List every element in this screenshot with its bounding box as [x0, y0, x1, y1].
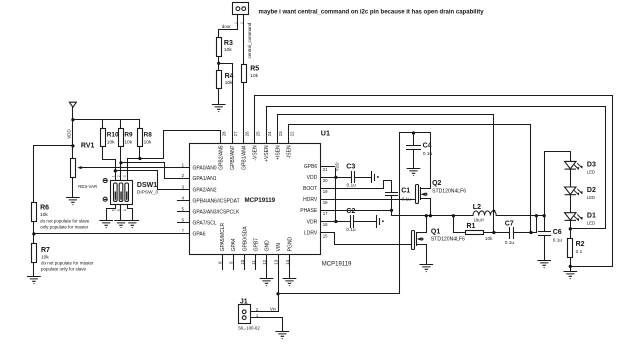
svg-text:GPA1/AN1: GPA1/AN1 [193, 176, 217, 182]
svg-text:Vin: Vin [270, 307, 277, 312]
junction [425, 214, 428, 217]
svg-text:R9: R9 [124, 132, 133, 139]
junction [276, 292, 279, 295]
U1 left pin numbers [182, 162, 185, 233]
wire J1 pin2 to VIN rail [251, 294, 279, 312]
wire R10 to DSW1 switch1 [103, 147, 116, 181]
ground below J1 [276, 332, 289, 340]
svg-text:R5: R5 [250, 66, 259, 73]
svg-text:Q1: Q1 [431, 228, 440, 235]
wire output to LED chain top [545, 152, 571, 216]
svg-text:R7: R7 [41, 247, 50, 254]
svg-text:R10: R10 [107, 132, 119, 139]
svg-text:MCP19119: MCP19119 [322, 261, 352, 267]
junction VDD rail [71, 118, 74, 121]
LED D1 [565, 213, 576, 239]
DSW1 polarity circles [103, 179, 107, 183]
resistor R10 [101, 129, 106, 147]
svg-text:R4: R4 [225, 73, 234, 80]
svg-text:R8: R8 [144, 132, 153, 139]
connector J1 SIL-100-02 [239, 305, 251, 324]
svg-text:do not populate for slave: do not populate for slave [40, 218, 90, 223]
resistor R5 [242, 65, 247, 83]
inductor L2 18uH [473, 211, 496, 216]
junction [429, 214, 432, 217]
svg-text:GPA2/AN2: GPA2/AN2 [193, 187, 217, 193]
svg-text:15: 15 [323, 233, 328, 238]
svg-text:C7: C7 [505, 220, 514, 227]
U1 top pin names (rotated) [219, 145, 293, 170]
output line after L2 [497, 215, 545, 217]
svg-text:L2: L2 [473, 204, 481, 211]
wire VDD rail to resistor bank [73, 120, 140, 129]
svg-text:VIN: VIN [276, 243, 282, 252]
wire VIN rail from pin13 [278, 255, 280, 294]
svg-text:19: 19 [323, 189, 328, 194]
junction C1/PHASE [390, 209, 393, 212]
svg-text:-ISEN: -ISEN [287, 145, 293, 159]
ground below RV1 [67, 198, 80, 206]
svg-text:12: 12 [262, 259, 267, 264]
svg-text:do not populate for master: do not populate for master [41, 261, 94, 266]
svg-text:R1: R1 [467, 223, 476, 230]
svg-text:VDD: VDD [67, 129, 72, 139]
wire R9 to DSW1 switch2, junction [120, 147, 122, 181]
wire RV1 bottom to ground [72, 178, 74, 198]
LED D3 [565, 161, 576, 186]
U1 bottom pin numbers (rotated) [217, 259, 290, 264]
wire C7 right to -ISEN junction [514, 216, 537, 233]
svg-text:16: 16 [323, 222, 328, 227]
svg-text:central_command: central_command [247, 22, 252, 58]
svg-text:GPA5/MCLR: GPA5/MCLR [220, 222, 226, 251]
wire door: P1 pin1 to R3 [219, 15, 238, 38]
svg-text:3: 3 [123, 175, 127, 177]
ground below R7 [28, 277, 41, 285]
svg-text:Q2: Q2 [432, 180, 441, 187]
ground below R2 [564, 272, 577, 280]
junction [535, 214, 538, 217]
svg-text:GND: GND [264, 240, 270, 252]
wire junction to U1 pin 7 [34, 233, 190, 235]
svg-text:RV1: RV1 [81, 143, 95, 150]
potentiometer RV1 [71, 159, 76, 178]
svg-text:LED: LED [587, 169, 595, 174]
wire U1 pin3 to switch1 junction [116, 171, 190, 190]
svg-text:+ISEN: +ISEN [275, 145, 281, 160]
U1 top pin numbers (rotated) [222, 131, 295, 136]
svg-text:GPB0/SDA: GPB0/SDA [242, 226, 248, 252]
junction [452, 214, 455, 217]
junction pin3 net on switch1 wire [114, 169, 117, 172]
svg-text:GPB1/AN4: GPB1/AN4 [242, 145, 248, 170]
wire LDRV pin15 to Q1 gate [321, 233, 412, 245]
resistor R6 [32, 203, 37, 222]
svg-text:VDR: VDR [307, 219, 318, 225]
capacitor C4 [413, 133, 415, 169]
wire U1 pin28 to R8 and DSW1 switch3 [128, 131, 221, 181]
svg-text:13: 13 [273, 259, 278, 264]
svg-text:GPB6: GPB6 [304, 164, 318, 170]
junction [119, 161, 122, 164]
transistor Q2 STD120N4LF6 [416, 185, 419, 204]
svg-text:25: 25 [256, 131, 261, 136]
U1 pin 12 GND stub and ground [266, 255, 268, 279]
resistor R1 [466, 231, 484, 235]
svg-text:11: 11 [251, 260, 256, 265]
junction L2 right crossing [493, 210, 496, 213]
svg-text:GPB4/AN6/ICSPDAT: GPB4/AN6/ICSPDAT [193, 198, 240, 204]
U1 left pin stubs 1-7 [178, 201, 190, 223]
svg-text:BOOT: BOOT [303, 186, 317, 192]
connector P1 (door / central_command) [233, 3, 249, 15]
wire R8 bottom [139, 147, 141, 159]
svg-text:MCP19119: MCP19119 [245, 197, 276, 204]
ground below C6 [538, 261, 551, 269]
svg-text:RES-VAR: RES-VAR [78, 184, 97, 189]
svg-text:populate only for slave: populate only for slave [41, 267, 87, 272]
junction [569, 265, 572, 268]
svg-text:10k: 10k [224, 47, 232, 53]
svg-text:10k: 10k [107, 139, 115, 145]
svg-text:6: 6 [111, 209, 115, 211]
wire R1 to C7 [484, 232, 509, 234]
svg-text:0.1u: 0.1u [423, 151, 433, 157]
wire central_command: P1 pin2 to R5 [243, 15, 245, 65]
junction [138, 157, 141, 160]
svg-text:10k: 10k [144, 139, 152, 145]
IC U1 MCP19119 body [190, 144, 321, 255]
wire R9 junction to U1 pin 2 [121, 163, 190, 179]
svg-text:D3: D3 [587, 161, 596, 168]
junction VDD vertical top [334, 176, 337, 179]
junction [32, 232, 35, 235]
wire R2 bottom junction to ground [570, 258, 572, 272]
svg-text:PHASE: PHASE [300, 208, 318, 214]
wire VDR row pin16 through C2 [321, 221, 377, 223]
svg-text:U1: U1 [321, 128, 330, 137]
svg-text:GPA0/AN0: GPA0/AN0 [193, 165, 217, 171]
wire VDD row pin20 through C3 [321, 177, 372, 179]
svg-text:17: 17 [323, 211, 328, 216]
DSW1 bottom wires to grounds [107, 205, 133, 221]
svg-text:2: 2 [117, 175, 121, 177]
svg-text:D1: D1 [587, 213, 596, 220]
wire J1 pin1 to ground [251, 318, 283, 332]
junction VDD to R6 branch [71, 144, 74, 147]
svg-text:GPA6: GPA6 [193, 232, 206, 238]
U1 right pin names [300, 164, 318, 236]
svg-text:VDD: VDD [307, 175, 318, 181]
svg-text:HDRV: HDRV [303, 197, 318, 203]
capacitor C6 [544, 216, 546, 261]
svg-text:10k: 10k [124, 139, 132, 145]
wire VDD branch to R6 [34, 146, 73, 203]
capacitor C1 [386, 193, 398, 196]
wire R7 bottom to ground [33, 263, 35, 277]
RV1 wiper arrow [81, 167, 85, 169]
svg-text:0.1u: 0.1u [347, 183, 357, 189]
svg-text:21: 21 [323, 167, 328, 172]
resistor R8 [138, 129, 143, 147]
svg-text:C3: C3 [346, 164, 355, 171]
U1 bottom pin stubs 8-11 (no connect) [223, 255, 256, 270]
junction D1/R2/+VSEN [569, 227, 572, 230]
junction [334, 220, 337, 223]
junction [217, 62, 220, 65]
svg-text:1: 1 [111, 175, 115, 177]
wire R3 bottom to R4, junction [218, 57, 220, 71]
VDD vertical tie pin20-pin16 [335, 169, 337, 222]
VDD symbol [69, 102, 76, 107]
svg-text:LED: LED [587, 195, 595, 200]
svg-text:DSW1: DSW1 [137, 182, 157, 189]
wire +ISEN pin23 loop to L2 right node [278, 115, 494, 233]
svg-text:28: 28 [222, 131, 227, 136]
grounds below DSW1 [100, 221, 113, 229]
svg-text:0.1: 0.1 [576, 249, 583, 255]
polarized cap at C3 right [372, 172, 375, 183]
svg-text:LDRV: LDRV [304, 230, 318, 236]
resistor R4 [217, 71, 222, 89]
wire HDRV pin18 to Q2 gate [321, 199, 416, 201]
svg-text:R2: R2 [576, 241, 585, 248]
U1 right pin stubs 21-15 [321, 167, 335, 233]
polarized cap at C2 right [377, 216, 380, 228]
capacitor C2 [351, 216, 354, 228]
wire RV1 wiper to U1 pin 1 [84, 167, 190, 169]
DSW1 tiny pin numbers [111, 175, 127, 211]
wire -ISEN pin22 loop to C7 right [289, 125, 531, 233]
svg-text:GPA7/SCL: GPA7/SCL [193, 221, 217, 227]
wire C1 bottom to PHASE row [391, 196, 393, 216]
svg-text:STD120N4LF6: STD120N4LF6 [431, 236, 465, 242]
wire +VSEN pin24 loop to R2 top [267, 107, 606, 229]
junction C4 top [412, 131, 415, 134]
svg-text:VDD: VDD [334, 162, 339, 171]
svg-text:-VSEN: -VSEN [253, 145, 259, 161]
U1 left pin names [193, 165, 241, 237]
svg-text:GPB2/AN5: GPB2/AN5 [219, 145, 225, 170]
svg-text:22: 22 [289, 131, 294, 136]
svg-text:18uH: 18uH [474, 217, 484, 222]
capacitor C7 [510, 228, 514, 239]
wire PHASE pin17 row [321, 210, 392, 212]
svg-text:10k: 10k [40, 212, 48, 218]
svg-text:GPA3/AN3/ICSPCLK: GPA3/AN3/ICSPCLK [193, 210, 241, 216]
wire -VSEN pin25 loop to R2 bottom [255, 96, 613, 267]
svg-text:10k: 10k [485, 236, 493, 242]
svg-text:STD120N4LF6: STD120N4LF6 [432, 188, 466, 194]
wire R1 tap down [454, 216, 466, 233]
resistor R9 [119, 129, 124, 147]
resistor R3 [217, 38, 222, 57]
transistor Q1 STD120N4LF6 [412, 231, 415, 250]
capacitor C3 [352, 172, 355, 183]
svg-text:27: 27 [233, 131, 238, 136]
svg-text:4: 4 [123, 209, 127, 211]
svg-text:C1: C1 [401, 188, 410, 195]
svg-text:0.1u: 0.1u [505, 240, 515, 246]
wire R5 bottom to U1 pin 26 [243, 83, 245, 144]
svg-text:18: 18 [323, 200, 328, 205]
svg-text:maybe i want central_command o: maybe i want central_command on i2c pin … [259, 10, 485, 16]
resistor R2 [568, 239, 573, 258]
svg-text:0.1u: 0.1u [553, 237, 563, 243]
svg-text:C6: C6 [553, 229, 562, 236]
phase node line [392, 215, 473, 217]
svg-text:+VSEN: +VSEN [264, 145, 270, 162]
svg-text:23: 23 [278, 131, 283, 136]
svg-text:J1: J1 [240, 298, 248, 305]
svg-text:SIL-100-02: SIL-100-02 [238, 326, 260, 331]
svg-text:D2: D2 [587, 187, 596, 194]
svg-text:26: 26 [244, 131, 249, 136]
resistor R7 [32, 244, 37, 263]
junction [543, 214, 546, 217]
svg-text:24: 24 [267, 131, 272, 136]
svg-text:GPB5/AN7: GPB5/AN7 [230, 145, 236, 170]
svg-text:GPA4: GPA4 [231, 238, 237, 251]
U1 bottom pin names (rotated) [220, 222, 294, 251]
ground below Q1 [420, 265, 433, 273]
svg-text:PGND: PGND [287, 237, 293, 252]
junction R6/R7/pin7 [33, 222, 35, 244]
U1 pin 14 PGND stub and ground [289, 255, 291, 279]
svg-text:DIPSW_3: DIPSW_3 [137, 190, 158, 196]
wire BOOT pin19 to C1 top [321, 181, 392, 193]
LED D2 [565, 187, 576, 213]
U1 right pin numbers [323, 167, 328, 238]
ground below R4 [212, 105, 225, 113]
svg-text:14: 14 [285, 259, 290, 264]
svg-text:R3: R3 [224, 40, 233, 47]
svg-text:10: 10 [240, 259, 245, 264]
svg-text:GPB7: GPB7 [254, 238, 260, 252]
svg-text:only populate for master: only populate for master [40, 225, 89, 230]
svg-text:10k: 10k [250, 73, 258, 79]
svg-text:C2: C2 [346, 208, 355, 215]
wire junction to U1 pin 27 [219, 64, 233, 144]
svg-text:10k: 10k [225, 80, 233, 86]
svg-text:20: 20 [323, 178, 328, 183]
ground below C4 [407, 169, 420, 177]
svg-text:LED: LED [587, 221, 595, 226]
junction [529, 231, 532, 234]
wire R4 bottom to ground [218, 89, 220, 105]
svg-text:0.1u: 0.1u [346, 227, 356, 233]
DIP switch DSW1 [111, 181, 133, 205]
junction [492, 231, 495, 234]
svg-text:door: door [222, 24, 232, 29]
svg-text:R6: R6 [40, 205, 49, 212]
